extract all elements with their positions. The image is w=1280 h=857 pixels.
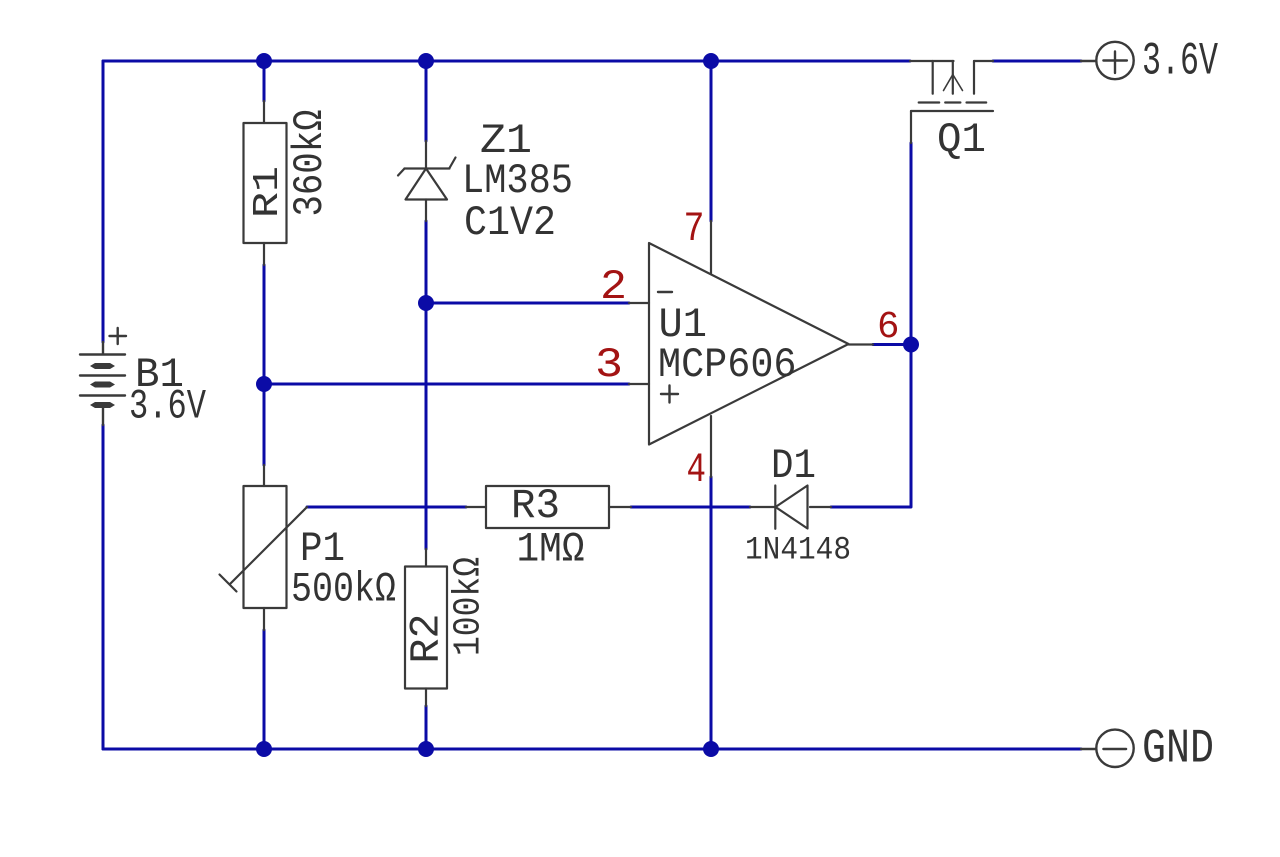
- junction bottom rail at R2: [418, 741, 434, 757]
- wire Z1 bottom through node B to R2 top: [425, 221, 428, 549]
- junction node C output/gate/D1: [903, 337, 919, 353]
- wire Z1 top: [425, 61, 428, 141]
- wire P1 bottom to bottom rail: [263, 630, 266, 749]
- potentiometer P1: [220, 465, 308, 630]
- svg-text:3.6V: 3.6V: [129, 383, 206, 431]
- svg-text:R2: R2: [403, 614, 451, 664]
- svg-text:360kΩ: 360kΩ: [286, 110, 334, 217]
- wire R1 top: [263, 61, 266, 101]
- wire node A to op-amp pin 3: [264, 383, 629, 386]
- svg-text:D1: D1: [771, 442, 816, 490]
- svg-text:2: 2: [600, 263, 627, 311]
- wire R2 bottom to bottom rail: [425, 706, 428, 749]
- wire node B to op-amp pin 2: [426, 302, 629, 305]
- wire R1 bottom to node A: [263, 265, 266, 384]
- svg-text:3: 3: [595, 341, 623, 389]
- wire D1 anode to R3: [631, 506, 750, 509]
- wire left vertical lower (battery - to bottom rail): [102, 425, 105, 749]
- supply symbol +3.6V: [1081, 42, 1134, 79]
- resistor R3: [466, 486, 631, 528]
- ground symbol GND: [1081, 730, 1134, 767]
- svg-text:R1: R1: [247, 166, 288, 218]
- wire R3 left to P1 wiper: [307, 506, 466, 509]
- resistor R1: [244, 101, 287, 265]
- svg-text:1MΩ: 1MΩ: [517, 526, 585, 574]
- svg-text:GND: GND: [1142, 723, 1214, 777]
- svg-text:1N4148: 1N4148: [745, 532, 851, 569]
- junction top rail at pin 7: [703, 53, 719, 69]
- wire op-amp output to node C: [873, 343, 911, 346]
- battery plus sign: [110, 328, 127, 344]
- junction bottom rail at pin 4: [703, 741, 719, 757]
- svg-text:R3: R3: [511, 482, 560, 530]
- wire pin 4 to bottom rail: [710, 477, 713, 749]
- junction bottom rail at P1: [256, 741, 272, 757]
- transistor Q1 p-mosfet: [910, 61, 993, 143]
- Q1 source arrow: [944, 75, 963, 91]
- junction node A R1/P1/pin3: [256, 376, 272, 392]
- svg-text:Q1: Q1: [937, 116, 986, 164]
- junction node B zener/pin2: [418, 295, 434, 311]
- junction top rail at Z1: [418, 53, 434, 69]
- op-amp minus input mark: [658, 291, 672, 293]
- wire bottom rail GND: [103, 748, 1081, 751]
- svg-text:LM385: LM385: [462, 157, 573, 205]
- svg-text:C1V2: C1V2: [464, 199, 556, 247]
- wire node A to P1 top: [263, 384, 266, 465]
- resistor R2: [405, 549, 447, 706]
- svg-text:4: 4: [687, 446, 707, 494]
- svg-text:500kΩ: 500kΩ: [291, 566, 396, 614]
- battery B1: [80, 342, 125, 425]
- wire pin 7 to top rail: [710, 61, 713, 221]
- wire node C vertical Q1 gate to D1 corner: [831, 143, 911, 507]
- wire Q1 drain to +3.6V supply: [993, 60, 1081, 63]
- wire left vertical upper (battery + to top rail): [102, 61, 105, 342]
- svg-text:3.6V: 3.6V: [1142, 36, 1218, 88]
- svg-text:100kΩ: 100kΩ: [448, 557, 491, 656]
- svg-text:6: 6: [877, 306, 900, 349]
- wire top rail from left corner to Q1: [103, 60, 910, 63]
- zener diode Z1: [398, 141, 456, 221]
- svg-text:MCP606: MCP606: [658, 341, 797, 389]
- op-amp U1: [629, 221, 873, 477]
- diode D1 1N4148: [750, 486, 831, 529]
- junction top rail at R1: [256, 53, 272, 69]
- svg-text:7: 7: [684, 205, 705, 253]
- Q1 gate dashed line: [919, 101, 987, 103]
- op-amp plus input mark: [661, 386, 678, 403]
